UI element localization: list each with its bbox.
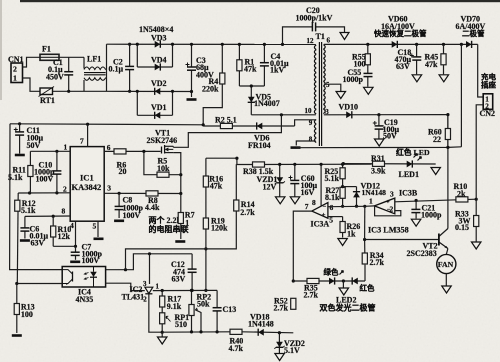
ground RP1 (161, 331, 164, 334)
FAN motor (446, 249, 448, 255)
TL431 IC2 (145, 287, 153, 293)
svg-text:−: − (323, 203, 327, 210)
svg-text:2.7k: 2.7k (370, 258, 385, 267)
svg-text:1: 1 (13, 74, 17, 83)
svg-text:50V: 50V (383, 132, 397, 141)
svg-text:47k: 47k (244, 65, 257, 74)
svg-text:3: 3 (143, 280, 147, 288)
svg-text:2: 2 (13, 65, 17, 74)
wire IC3A out branch to LED2 (292, 279, 295, 282)
op-amp IC3A (312, 203, 328, 219)
diode VD3 (155, 41, 161, 48)
svg-text:T1: T1 (316, 32, 325, 41)
svg-text:450V: 450V (46, 73, 64, 82)
scan top edge artifact (20, 0, 500, 2)
svg-text:63V: 63V (172, 275, 186, 284)
ground C11 (15, 154, 25, 157)
wire to VT2 base (365, 239, 439, 241)
svg-text:100: 100 (21, 310, 33, 319)
svg-text:4.4k: 4.4k (145, 203, 160, 212)
op-amp IC3B (374, 198, 394, 214)
svg-text:1k: 1k (347, 229, 356, 238)
svg-text:47k: 47k (210, 182, 223, 191)
wire IC3A output (293, 211, 312, 281)
svg-text:63V: 63V (31, 238, 45, 247)
capacitor C6 0.01u 63V (24, 216, 26, 238)
IC3B feedback loop (375, 207, 401, 216)
wire IC3B plus input (395, 199, 476, 202)
wire TL431 ref right (153, 289, 217, 291)
LED green (329, 278, 335, 285)
svg-text:1N4148: 1N4148 (248, 319, 274, 328)
pin 2 wire (18, 192, 70, 194)
ground VZD1 (275, 197, 285, 204)
svg-text:2: 2 (63, 185, 67, 194)
fuse F1 (40, 54, 59, 60)
capacitor C4 0.01u 1kV (263, 44, 265, 86)
resistor R4 220k (203, 44, 222, 124)
wire TL431 anode down (149, 294, 162, 332)
svg-text:IC3A: IC3A (311, 219, 330, 228)
diode VD70 (466, 41, 472, 48)
low voltage output wire (324, 114, 448, 116)
wire opto emitter left (17, 283, 62, 285)
svg-text:C13: C13 (223, 305, 237, 314)
svg-text:2SK2746: 2SK2746 (147, 136, 178, 145)
arrow terminal LED1 (431, 168, 441, 175)
svg-text:红色 LED: 红色 LED (396, 147, 430, 157)
svg-text:+: + (322, 212, 326, 219)
wire long 12V feed (342, 163, 345, 166)
svg-text:1000p: 1000p (343, 75, 364, 84)
connector CN2 (483, 94, 493, 110)
transformer T1 core (318, 42, 320, 146)
resistor R45 47k (443, 44, 445, 74)
pin 6 wire (104, 150, 144, 152)
sense wire from rail (460, 44, 462, 146)
diode VD60 fast recovery (392, 41, 398, 48)
pin 5 ground (97, 221, 99, 237)
aux 12V wire (248, 163, 372, 165)
svg-text:0.15: 0.15 (455, 223, 469, 232)
wire VD6 row (203, 125, 294, 127)
svg-text:3.9k: 3.9k (371, 167, 386, 176)
wire TL431 cathode (149, 254, 151, 284)
svg-text:1: 1 (369, 197, 373, 206)
svg-text:IC1: IC1 (80, 173, 94, 183)
resistor R13 100 (16, 284, 18, 334)
pin 4 wire / C7 node (75, 221, 77, 246)
wire IC3A inverting input (328, 205, 365, 207)
ground C18 (412, 75, 422, 82)
potentiometer RP1 510 (160, 313, 165, 324)
svg-text:1N4148: 1N4148 (362, 188, 387, 197)
ground C3 (187, 98, 197, 101)
diode VD18 1N4148 (258, 329, 264, 336)
svg-text:6: 6 (107, 143, 111, 152)
svg-text:插座: 插座 (481, 80, 496, 90)
resistor R38 1.5k (253, 162, 265, 167)
mosfet VT1 (144, 150, 161, 152)
zener VZD1 12V (279, 164, 281, 196)
resistor R16 47k (205, 158, 207, 213)
svg-text:的电阻串联: 的电阻串联 (149, 224, 189, 234)
ground R7 (175, 240, 185, 243)
svg-text:100V: 100V (82, 256, 100, 265)
pin 7 wire (87, 124, 89, 146)
capacitor C3 68u 400V (191, 44, 193, 97)
capacitor C60 100u 16V (294, 164, 296, 196)
svg-text:7: 7 (305, 202, 309, 211)
svg-text:12k: 12k (58, 232, 71, 241)
svg-text:二极管: 二极管 (462, 28, 485, 38)
svg-text:1: 1 (156, 283, 160, 291)
optocoupler IC4 4N35 (62, 267, 105, 288)
capacitor C12 474 63V (191, 254, 193, 291)
svg-text:两个 2.2k: 两个 2.2k (149, 215, 182, 225)
transformer T1 secondary winding (323, 45, 325, 114)
svg-text:4.7k: 4.7k (229, 344, 244, 353)
svg-text:100V: 100V (36, 175, 54, 184)
svg-text:5: 5 (326, 81, 330, 89)
svg-text:8: 8 (309, 136, 313, 144)
LED red (352, 278, 358, 285)
svg-text:12: 12 (307, 37, 315, 45)
svg-text:VD2: VD2 (151, 79, 167, 88)
diode VD5 1N4007 (250, 86, 252, 115)
resistor R35 2.7k (307, 278, 319, 283)
bottom rail (107, 90, 192, 92)
capacitor C7 1000p 100V (75, 246, 77, 259)
pin 8 wire (25, 215, 70, 217)
transistor VT2 2SC2383 (438, 234, 440, 246)
ground R13 (12, 334, 22, 337)
svg-text:3: 3 (107, 184, 111, 193)
svg-text:3: 3 (390, 190, 394, 199)
capacitor C8 1000p 100V (118, 193, 120, 218)
capacitor C2 0.1u (129, 44, 131, 91)
svg-text:VD10: VD10 (339, 103, 359, 112)
svg-text:VD3: VD3 (151, 34, 167, 43)
resistor R14 2.7k (235, 164, 237, 211)
wire VT2 collector (447, 115, 449, 229)
resistor R11 5.1k (29, 151, 31, 193)
svg-text:CN1: CN1 (8, 55, 24, 64)
svg-text:FAN: FAN (438, 260, 454, 269)
svg-text:1N4007: 1N4007 (254, 99, 280, 108)
svg-text:1000p: 1000p (421, 211, 442, 220)
ground C6 (20, 239, 30, 242)
svg-text:16V: 16V (301, 188, 315, 197)
resistor R1 47k (238, 44, 240, 86)
svg-text:50k: 50k (197, 300, 210, 309)
wire IC3B output to IC3A (365, 205, 375, 207)
svg-text:10k: 10k (157, 164, 170, 173)
ground LED2 common (342, 281, 344, 288)
capacitor C18 470u 63V (416, 44, 418, 74)
capacitor C11 100u 50V (19, 124, 21, 154)
resistor R19 120k (205, 213, 207, 290)
resistor R31 3.9k (373, 161, 385, 166)
svg-text:4: 4 (70, 221, 74, 230)
svg-text:8.1k: 8.1k (325, 193, 340, 202)
svg-text:63V: 63V (396, 62, 410, 71)
top DC rail (107, 43, 316, 45)
svg-text:9.1k: 9.1k (167, 302, 182, 311)
diode VD6 FR104 (257, 123, 263, 130)
resistor R25 5.1k (342, 164, 344, 186)
svg-text:6: 6 (330, 203, 334, 212)
capacitor C13 (216, 290, 218, 332)
resistor R33 3W 0.15 (475, 199, 477, 241)
resistor R26 1k (342, 217, 344, 238)
svg-text:5.1V: 5.1V (284, 346, 300, 355)
svg-text:LED1: LED1 (399, 170, 419, 179)
ground FAN (445, 274, 447, 286)
potentiometer RP2 50k (191, 290, 193, 332)
svg-text:R31: R31 (371, 154, 385, 163)
svg-text:2.7k: 2.7k (240, 208, 255, 217)
capacitor C55 1000p (367, 70, 369, 87)
secondary top rail (324, 43, 478, 45)
12V node wire to VD12 (343, 186, 357, 188)
svg-text:红色: 红色 (360, 283, 375, 293)
ground C55 (364, 87, 374, 94)
resistor R60 22 (447, 115, 449, 148)
wire CN1 pin1 to RT1 (23, 78, 41, 91)
svg-text:2.7k: 2.7k (304, 291, 319, 300)
wire CN1 pin2 to F1 (23, 57, 41, 67)
svg-text:双色发光二极管: 双色发光二极管 (320, 303, 376, 313)
resistor R52 2.7k (291, 298, 296, 309)
svg-text:IC3 LM358: IC3 LM358 (368, 226, 409, 235)
resistor R12 5.1k (16, 193, 19, 284)
wire snubber bottom (239, 85, 264, 87)
LED LED1 (407, 161, 413, 168)
svg-text:1: 1 (64, 143, 68, 152)
wire CN2 pin2 return (476, 105, 483, 199)
wire aux pin9 (295, 120, 316, 126)
wire R40 to VD18 (242, 332, 293, 333)
ground C7 (70, 260, 80, 263)
wire aux pin8 ground (296, 141, 316, 146)
diode VD4 (137, 66, 172, 68)
diode VD10 (346, 111, 352, 118)
svg-text:1kV: 1kV (270, 66, 284, 75)
ground R45 (439, 75, 449, 82)
resistor R6 20 (114, 149, 126, 154)
bridge left vertical (136, 44, 138, 67)
resistor R10 12k (52, 216, 54, 246)
resistor R5 10k (144, 151, 181, 174)
svg-text:120k: 120k (211, 224, 228, 233)
VCC rail wire (10, 124, 203, 125)
diode VD12 1N4148 (356, 187, 358, 207)
wire LED1 row (343, 163, 435, 165)
svg-text:VD4: VD4 (151, 56, 167, 65)
svg-text:5.1k: 5.1k (325, 174, 340, 183)
svg-text:220k: 220k (202, 85, 219, 94)
wire F1 to LF1 (59, 56, 84, 58)
svg-text:100V: 100V (123, 211, 141, 220)
wire LED2 right to R34 (364, 265, 366, 281)
svg-text:7: 7 (80, 137, 84, 146)
wire feedback bottom (162, 331, 230, 333)
svg-text:1: 1 (185, 219, 189, 228)
svg-text:5.1k: 5.1k (8, 173, 23, 182)
wire opto diode cathode (106, 283, 145, 290)
ground C8 (114, 220, 124, 223)
IC U1 KA3842 box (70, 147, 104, 222)
resistor R8 4.4k (146, 191, 158, 196)
svg-text:2: 2 (390, 205, 394, 214)
ground C60 (290, 197, 300, 204)
transformer T1 aux winding (314, 120, 316, 143)
pin 1 wire (30, 150, 70, 152)
svg-text:0.1μ: 0.1μ (109, 65, 124, 74)
thermistor RT1 (52, 90, 107, 92)
svg-text:R2 5.1: R2 5.1 (215, 116, 237, 125)
connector CN1 (11, 63, 23, 83)
capacitor C19 100u 50V (378, 115, 380, 139)
wire VT1 drain to pin10 (173, 115, 281, 148)
svg-text:VD1: VD1 (151, 103, 167, 112)
svg-text:1000p/1kV: 1000p/1kV (296, 14, 333, 23)
zener VZD2 5.1V (278, 331, 281, 334)
svg-text:LF1: LF1 (87, 55, 101, 64)
svg-text:IC3B: IC3B (399, 189, 418, 198)
svg-text:2.7k: 2.7k (274, 304, 289, 313)
capacitor C21 1000p (415, 201, 417, 219)
ground R33 (471, 242, 481, 249)
wire VT1 source down (173, 153, 181, 194)
svg-text:绿色: 绿色 (324, 267, 339, 277)
svg-text:8: 8 (312, 198, 316, 207)
vertical from IC3A input node (364, 206, 366, 239)
svg-text:FR104: FR104 (248, 141, 271, 150)
svg-text:F1: F1 (42, 45, 51, 54)
svg-text:4N35: 4N35 (76, 295, 94, 304)
wire opto collector net (106, 254, 193, 270)
svg-text:50V: 50V (27, 141, 41, 150)
svg-text:5: 5 (93, 222, 97, 231)
svg-text:快速恢复二极管: 快速恢复二极管 (374, 28, 427, 38)
resistor R10 2k (456, 197, 468, 202)
ground C21 (411, 219, 421, 226)
wire LED2 row (293, 280, 365, 282)
LM358 pin8 supply stub (320, 164, 322, 206)
wire VD70 to CN2 pin1 (478, 44, 484, 97)
svg-text:22: 22 (433, 135, 441, 144)
wire T1 pin5 arrow (324, 84, 341, 91)
svg-text:KA3842: KA3842 (72, 182, 102, 192)
resistor R17 9.1k (161, 291, 163, 333)
wire R14 net upper (126, 211, 237, 270)
resistor R34 2.7k (364, 240, 366, 265)
svg-text:2SC2383: 2SC2383 (407, 249, 437, 258)
wire IC3A non-inverting input (328, 216, 343, 218)
ground T1 pin8 (291, 146, 301, 149)
svg-text:20: 20 (119, 167, 127, 176)
ground R26 (338, 239, 348, 246)
left rail (10, 124, 63, 270)
resistor R40 4.7k (230, 329, 242, 334)
svg-text:8: 8 (62, 207, 66, 216)
capacitor C10 1000p 100V (56, 151, 58, 193)
resistor R55 100 (367, 44, 369, 70)
svg-text:47k: 47k (425, 60, 438, 69)
svg-text:5.1k: 5.1k (21, 206, 36, 215)
capacitor C1 0.1u 450V (68, 57, 70, 91)
resistor R2 5.1 (220, 123, 232, 128)
svg-text:CN2: CN2 (480, 109, 496, 118)
svg-text:TL431: TL431 (122, 293, 145, 302)
svg-text:2k: 2k (457, 189, 466, 198)
svg-text:510: 510 (175, 320, 187, 329)
bridge right vertical (172, 44, 174, 67)
vertical RP2 wiper link (195, 310, 201, 332)
resistor R27 8.1k (342, 187, 344, 207)
resistor R7 1 (180, 194, 182, 240)
ground bus wire (296, 146, 461, 149)
diode VD1 (137, 114, 172, 116)
svg-text:2: 2 (143, 296, 147, 304)
wire LF1 right vertical (106, 44, 108, 91)
wire pin10 row (251, 114, 315, 116)
diode VD2 (155, 88, 161, 95)
arrow terminal C20 (340, 33, 349, 40)
svg-text:10: 10 (305, 107, 313, 115)
svg-text:12V: 12V (263, 182, 277, 191)
capacitor C20 1000p/1kV (283, 27, 345, 45)
feedback wire upper (206, 158, 248, 164)
svg-text:6: 6 (327, 37, 331, 45)
svg-text:RT1: RT1 (40, 96, 55, 105)
pin 3 wire (104, 192, 181, 194)
ground C19 (374, 139, 384, 146)
